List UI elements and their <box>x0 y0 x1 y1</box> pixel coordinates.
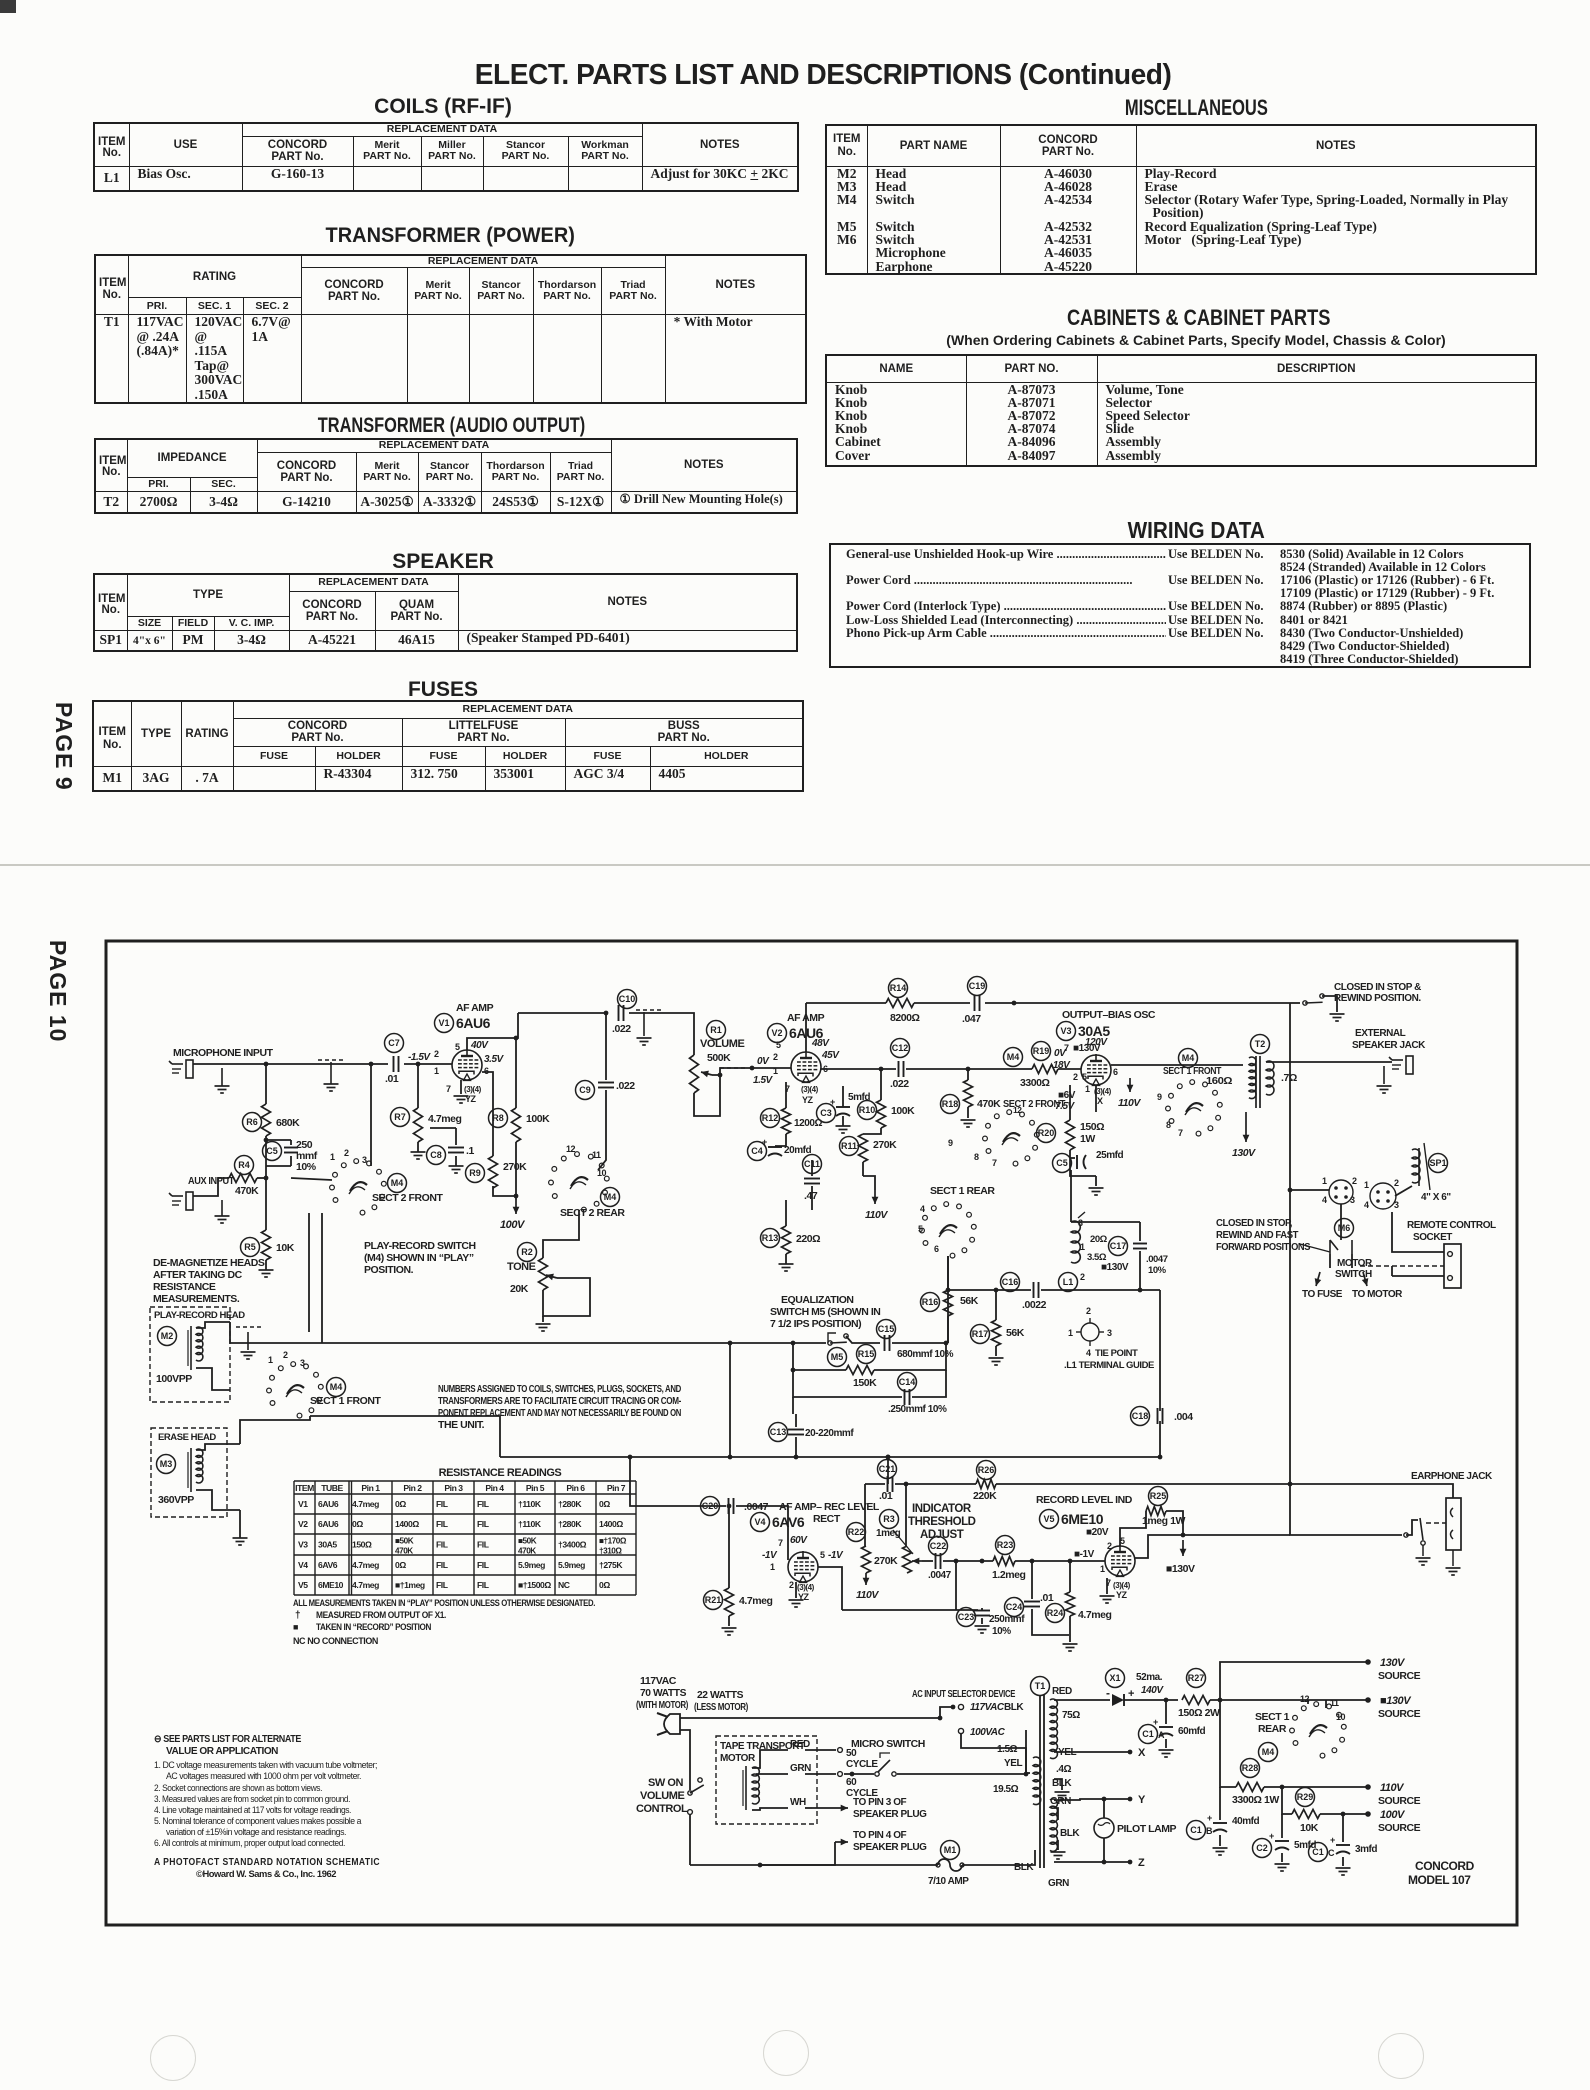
svg-text:VALUE OR APPLICATION: VALUE OR APPLICATION <box>166 1746 278 1757</box>
svg-text:AC voltages measured with 1000: AC voltages measured with 1000 ohm per v… <box>166 1771 361 1781</box>
svg-text:3. Measured values are from: 3. Measured values are from socket pin t… <box>154 1794 350 1804</box>
svg-text:CYCLE: CYCLE <box>846 1759 878 1770</box>
svg-text:M3: M3 <box>160 1459 173 1469</box>
pilot lamp <box>1094 1818 1114 1838</box>
svg-text:SOURCE: SOURCE <box>1378 1708 1421 1720</box>
svg-text:REMOTE CONTROL: REMOTE CONTROL <box>1407 1220 1496 1231</box>
capacitor C24 .01 <box>1005 1598 1024 1617</box>
svg-text:RESISTANCE: RESISTANCE <box>153 1281 216 1293</box>
svg-text:REWIND POSITION.: REWIND POSITION. <box>1334 993 1421 1004</box>
svg-text:20-220mmf: 20-220mmf <box>805 1428 854 1439</box>
capacitor C1B 40mfd <box>1219 1787 1221 1820</box>
svg-text:.0047: .0047 <box>928 1570 952 1581</box>
svg-text:6AV6: 6AV6 <box>772 1514 805 1530</box>
svg-text:FIL: FIL <box>436 1580 448 1590</box>
svg-text:20mfd: 20mfd <box>784 1145 812 1156</box>
wire V2 grid <box>752 1067 791 1069</box>
svg-text:R26: R26 <box>978 1465 995 1475</box>
svg-text:Pin 5: Pin 5 <box>526 1483 545 1493</box>
110V circuit <box>1220 1700 1236 1787</box>
svg-text:9: 9 <box>948 1138 953 1148</box>
svg-text:MEASUREMENTS.: MEASUREMENTS. <box>153 1293 240 1305</box>
svg-text:SPEAKER PLUG: SPEAKER PLUG <box>853 1842 927 1853</box>
rotary switch M4 SECT 2 FRONT b <box>986 1149 991 1154</box>
vertical feed wire right lower <box>1289 1190 1291 1484</box>
svg-text:FIL: FIL <box>436 1560 448 1570</box>
svg-text:.0047: .0047 <box>744 1501 769 1513</box>
svg-text:V1: V1 <box>438 1018 449 1028</box>
svg-text:4.7meg: 4.7meg <box>352 1499 379 1509</box>
svg-text:PLAY-RECORD SWITCH: PLAY-RECORD SWITCH <box>364 1240 476 1252</box>
svg-text:VOLUME: VOLUME <box>700 1038 744 1050</box>
svg-text:8200Ω: 8200Ω <box>890 1012 920 1024</box>
svg-text:3: 3 <box>1107 1328 1112 1338</box>
svg-text:CLOSED IN STOP,: CLOSED IN STOP, <box>1216 1218 1293 1229</box>
svg-text:FORWARD POSITIONS: FORWARD POSITIONS <box>1216 1242 1311 1253</box>
svg-text:C2: C2 <box>1256 1843 1268 1853</box>
svg-text:†110K: †110K <box>518 1519 542 1529</box>
svg-text:10: 10 <box>1336 1712 1346 1722</box>
resistor R15 150K <box>857 1345 876 1364</box>
svg-text:130V: 130V <box>1380 1657 1406 1669</box>
svg-text:■: ■ <box>293 1622 298 1632</box>
resistor R5 10K <box>241 1238 260 1257</box>
svg-text:ALL MEASUREMENTS TAKEN IN “PLA: ALL MEASUREMENTS TAKEN IN “PLAY” POSITIO… <box>293 1598 595 1609</box>
svg-text:C14: C14 <box>899 1377 916 1387</box>
capacitor C16 .0022 <box>1001 1273 1020 1292</box>
ground aux <box>221 1200 223 1216</box>
svg-text:11: 11 <box>1330 1698 1339 1708</box>
130V source terminals <box>1220 1662 1368 1700</box>
resistor R14 8200 <box>889 979 908 998</box>
svg-text:1400Ω: 1400Ω <box>599 1519 623 1529</box>
earphone switch <box>1420 1518 1423 1540</box>
svg-text:4: 4 <box>1322 1195 1327 1205</box>
svg-text:110V: 110V <box>856 1589 879 1601</box>
capacitor C11 .47 <box>803 1155 822 1174</box>
resistor R27 150 2W <box>1187 1669 1206 1688</box>
svg-text:C: C <box>1328 1848 1335 1858</box>
wire mid bus <box>948 1289 1031 1291</box>
svg-text:TIE POINT: TIE POINT <box>1095 1348 1138 1359</box>
svg-text:.47: .47 <box>804 1190 818 1202</box>
wire switch to head 1 <box>308 1213 310 1332</box>
svg-text:150Ω 2W: 150Ω 2W <box>1178 1707 1220 1719</box>
wire rotary to C7 node <box>370 1064 372 1166</box>
motor switch M6 <box>1340 1204 1342 1240</box>
svg-text:TONE: TONE <box>507 1261 536 1273</box>
svg-text:+: + <box>1269 1831 1274 1841</box>
svg-text:4.7meg: 4.7meg <box>1078 1609 1112 1621</box>
svg-text:.004: .004 <box>1174 1411 1193 1423</box>
svg-text:5.9meg: 5.9meg <box>558 1560 585 1570</box>
svg-text:B: B <box>1206 1826 1213 1836</box>
svg-text:2: 2 <box>1352 1176 1357 1186</box>
svg-text:C15: C15 <box>878 1324 895 1334</box>
resistor R20 150 1W <box>1037 1124 1056 1143</box>
svg-text:.047: .047 <box>962 1013 981 1025</box>
long bus y1457 <box>500 1456 1160 1458</box>
wh wire to speaker plug <box>805 1807 812 1809</box>
capacitor C10 .022 <box>618 990 637 1009</box>
svg-text:2: 2 <box>1080 1272 1085 1282</box>
svg-text:4: 4 <box>1086 1348 1091 1358</box>
svg-text:■50K: ■50K <box>518 1537 537 1546</box>
svg-text:270K: 270K <box>503 1161 527 1173</box>
svg-text:2: 2 <box>434 1049 439 1059</box>
svg-text:5mfd: 5mfd <box>848 1092 870 1103</box>
svg-text:20Ω: 20Ω <box>1090 1234 1108 1245</box>
bottom rail <box>690 1864 938 1866</box>
svg-text:R2: R2 <box>521 1247 533 1257</box>
svg-text:FIL: FIL <box>477 1499 489 1509</box>
svg-text:SWITCH M5 (SHOWN IN: SWITCH M5 (SHOWN IN <box>770 1306 880 1318</box>
svg-text:10%: 10% <box>296 1161 317 1173</box>
svg-text:52ma.: 52ma. <box>1136 1672 1163 1683</box>
svg-text:R12: R12 <box>762 1113 779 1123</box>
svg-text:V3: V3 <box>1060 1026 1071 1036</box>
svg-text:C17: C17 <box>1110 1241 1127 1251</box>
resistor R12 1200 <box>761 1109 780 1128</box>
capacitor C12 .022 <box>891 1039 910 1058</box>
svg-text:variation of ±15%in voltage an: variation of ±15%in voltage and resistan… <box>166 1827 346 1837</box>
svg-text:1: 1 <box>330 1152 335 1162</box>
capacitor C17 .0047 <box>1109 1237 1128 1256</box>
svg-text:R11: R11 <box>841 1141 857 1151</box>
svg-text:2: 2 <box>789 1580 794 1590</box>
head M3 coil <box>196 1449 203 1483</box>
svg-text:GRN: GRN <box>1050 1796 1071 1807</box>
svg-text:117VAC: 117VAC <box>970 1702 1005 1713</box>
motor winding <box>752 1767 759 1804</box>
arrow 110V V3 <box>1129 1078 1131 1092</box>
wire bus v4 to C21 <box>887 1457 889 1484</box>
svg-text:YZ: YZ <box>802 1095 814 1105</box>
svg-text:C24: C24 <box>1006 1602 1023 1612</box>
svg-text:470K: 470K <box>395 1547 413 1556</box>
arrow 130V below T2 <box>1245 1112 1247 1142</box>
resistor R29 10K <box>1296 1788 1315 1807</box>
svg-text:V2: V2 <box>771 1028 782 1038</box>
arrow 100V <box>515 1200 517 1214</box>
svg-text:THRESHOLD: THRESHOLD <box>908 1516 976 1528</box>
wire V1 plate to bus <box>467 1013 518 1050</box>
svg-text:MICROPHONE INPUT: MICROPHONE INPUT <box>173 1047 274 1059</box>
svg-text:-18V: -18V <box>1050 1060 1071 1071</box>
svg-text:BLK: BLK <box>1014 1862 1034 1873</box>
svg-text:TAKEN IN “RECORD” POSITION: TAKEN IN “RECORD” POSITION <box>316 1622 431 1633</box>
svg-text:T2: T2 <box>1255 1039 1266 1049</box>
svg-text:⊖ SEE PARTS LIST FOR ALTERNATE: ⊖ SEE PARTS LIST FOR ALTERNATE <box>154 1734 302 1745</box>
svg-text:470K: 470K <box>235 1185 259 1197</box>
svg-text:1: 1 <box>434 1066 439 1076</box>
wire V3 screen down <box>1095 1085 1097 1112</box>
resistor R16 56K <box>921 1293 940 1312</box>
svg-text:19.5Ω: 19.5Ω <box>993 1784 1019 1795</box>
svg-text:11: 11 <box>592 1150 601 1160</box>
svg-text:R10: R10 <box>859 1105 876 1115</box>
svg-text:TRANSFORMERS ARE TO FACILITATE: TRANSFORMERS ARE TO FACILITATE CIRCUIT T… <box>438 1395 682 1407</box>
svg-text:MICRO SWITCH: MICRO SWITCH <box>851 1738 925 1750</box>
svg-text:REWIND AND FAST: REWIND AND FAST <box>1216 1230 1298 1241</box>
svg-text:100K: 100K <box>526 1113 550 1125</box>
svg-text:FIL: FIL <box>436 1519 448 1529</box>
svg-text:INDICATOR: INDICATOR <box>912 1503 972 1515</box>
svg-text:500K: 500K <box>707 1052 731 1064</box>
svg-text:SPEAKER JACK: SPEAKER JACK <box>1352 1040 1426 1051</box>
capacitor C20 .0047 <box>701 1497 720 1516</box>
grounds earphone <box>1422 1545 1424 1556</box>
shield over mic wire <box>318 1059 346 1061</box>
wire erase head to bus <box>240 1416 310 1444</box>
svg-text:(LESS MOTOR): (LESS MOTOR) <box>694 1701 748 1713</box>
capacitor C3 5mfd <box>817 1104 836 1123</box>
svg-text:M6: M6 <box>1338 1223 1351 1233</box>
svg-text:X: X <box>1138 1747 1146 1759</box>
svg-text:5. Nominal tolerance of comp: 5. Nominal tolerance of component values… <box>154 1816 361 1826</box>
rotary switch M4 SECT 1 FRONT <box>270 1401 275 1406</box>
svg-text:M4: M4 <box>604 1192 617 1202</box>
svg-text:T1: T1 <box>1035 1681 1046 1691</box>
svg-text:150K: 150K <box>853 1377 877 1389</box>
svg-text:1: 1 <box>770 1562 775 1572</box>
transformer T2 <box>1251 1035 1270 1054</box>
svg-text:ITEM: ITEM <box>295 1483 314 1493</box>
svg-text:Pin 4: Pin 4 <box>485 1483 504 1493</box>
svg-text:SPEAKER PLUG: SPEAKER PLUG <box>853 1809 927 1820</box>
svg-text:C18: C18 <box>1132 1411 1149 1421</box>
wire sect1rear risers <box>947 1256 949 1343</box>
wire T2 secondary to speaker jack <box>1266 1061 1392 1063</box>
svg-text:-1V: -1V <box>828 1550 844 1561</box>
svg-text:M4: M4 <box>1182 1053 1195 1063</box>
svg-text:FIL: FIL <box>436 1499 448 1509</box>
svg-text:R8: R8 <box>492 1113 504 1123</box>
svg-text:M1: M1 <box>944 1845 957 1855</box>
svg-text:Pin 1: Pin 1 <box>361 1483 380 1493</box>
svg-text:.022: .022 <box>612 1023 631 1035</box>
svg-text:†275K: †275K <box>599 1560 623 1570</box>
svg-text:C1: C1 <box>1142 1729 1154 1739</box>
svg-text:140V: 140V <box>1141 1685 1164 1696</box>
wires to plugs <box>1290 1189 1329 1191</box>
fuse M1 <box>941 1841 960 1860</box>
svg-text:C13: C13 <box>770 1427 787 1437</box>
svg-text:RESISTANCE READINGS: RESISTANCE READINGS <box>439 1467 562 1479</box>
svg-text:SECT 1 REAR: SECT 1 REAR <box>930 1185 995 1197</box>
svg-text:M4: M4 <box>1007 1052 1020 1062</box>
svg-text:M4: M4 <box>330 1382 343 1392</box>
svg-text:4" X 6": 4" X 6" <box>1421 1192 1451 1203</box>
svg-text:R23: R23 <box>997 1540 1014 1550</box>
arrow 110V V2 <box>874 1190 876 1204</box>
capacitor C13 20-220mmf <box>769 1423 788 1442</box>
svg-text:0V: 0V <box>757 1056 770 1067</box>
svg-text:BLK: BLK <box>1060 1828 1080 1839</box>
svg-text:MOTOR: MOTOR <box>1337 1258 1373 1269</box>
svg-text:CONTROL: CONTROL <box>636 1803 688 1815</box>
ac selector terminals <box>940 1707 953 1718</box>
resistor R22 270K <box>864 1484 866 1546</box>
capacitor C14 .250mmf <box>898 1373 917 1392</box>
svg-text:5: 5 <box>455 1042 460 1052</box>
svg-text:(3)(4): (3)(4) <box>801 1085 819 1094</box>
svg-text:FIL: FIL <box>477 1560 489 1570</box>
svg-text:.250mmf 10%: .250mmf 10% <box>888 1404 947 1415</box>
resistor R23 1.2meg <box>996 1536 1015 1555</box>
svg-text:AC INPUT SELECTOR DEVICE: AC INPUT SELECTOR DEVICE <box>912 1688 1015 1700</box>
svg-text:RED: RED <box>1052 1686 1072 1697</box>
svg-text:POSITION.: POSITION. <box>364 1264 414 1276</box>
svg-text:R7: R7 <box>394 1112 406 1122</box>
svg-text:OUTPUT–BIAS OSC: OUTPUT–BIAS OSC <box>1062 1009 1156 1021</box>
svg-text:R5: R5 <box>244 1242 256 1252</box>
svg-text:6: 6 <box>934 1244 939 1254</box>
tube V4 6AV6 <box>788 1552 818 1582</box>
svg-text:(WITH MOTOR): (WITH MOTOR) <box>636 1699 688 1711</box>
svg-text:NC: NC <box>558 1580 570 1590</box>
svg-text:SOCKET: SOCKET <box>1413 1232 1452 1243</box>
svg-text:7: 7 <box>992 1158 997 1168</box>
rotary switch M4 SECT 2 FRONT <box>333 1198 338 1203</box>
svg-text:2: 2 <box>1086 1306 1091 1316</box>
svg-text:3: 3 <box>1350 1195 1355 1205</box>
svg-text:■6V: ■6V <box>1058 1090 1076 1101</box>
svg-text:1: 1 <box>1080 1242 1085 1252</box>
svg-text:75Ω: 75Ω <box>1062 1710 1080 1721</box>
svg-text:270K: 270K <box>874 1555 898 1567</box>
svg-text:1: 1 <box>1322 1176 1327 1186</box>
svg-text:Pin 6: Pin 6 <box>566 1483 585 1493</box>
svg-text:130V: 130V <box>1232 1147 1256 1159</box>
svg-text:.L1 TERMINAL GUIDE: .L1 TERMINAL GUIDE <box>1064 1360 1154 1371</box>
long bus wire to C10 <box>518 1012 608 1014</box>
stop-rewind switch top right <box>1290 1002 1300 1004</box>
svg-text:V4: V4 <box>298 1560 308 1570</box>
svg-text:.01: .01 <box>385 1073 399 1085</box>
svg-text:(3)(4): (3)(4) <box>464 1085 482 1094</box>
svg-text:TO FUSE: TO FUSE <box>1302 1289 1343 1300</box>
svg-text:SWITCH: SWITCH <box>1335 1269 1372 1280</box>
svg-text:1meg 1W: 1meg 1W <box>1142 1515 1185 1527</box>
svg-text:.0022: .0022 <box>1022 1299 1047 1311</box>
svg-text:12: 12 <box>566 1144 576 1154</box>
svg-text:2: 2 <box>1394 1178 1399 1188</box>
wire head M2 to switch <box>230 1322 268 1343</box>
svg-text:R4: R4 <box>238 1160 250 1170</box>
svg-text:8: 8 <box>1166 1120 1171 1130</box>
svg-text:YEL: YEL <box>1004 1758 1022 1769</box>
shield head wire <box>247 1332 249 1350</box>
svg-text:4. Line voltage maintained a: 4. Line voltage maintained at 117 volts … <box>154 1805 351 1815</box>
svg-text:FIL: FIL <box>477 1540 489 1550</box>
svg-text:6AU6: 6AU6 <box>318 1519 339 1529</box>
svg-text:1200Ω: 1200Ω <box>794 1118 822 1129</box>
ground speaker jack <box>1383 1066 1385 1084</box>
svg-text:■130V: ■130V <box>1101 1262 1129 1273</box>
svg-text:C12: C12 <box>892 1043 909 1053</box>
ground V4 <box>795 1582 797 1598</box>
svg-text:AUX INPUT: AUX INPUT <box>188 1175 235 1187</box>
svg-text:RED: RED <box>790 1739 810 1750</box>
ground shield <box>330 1062 332 1084</box>
svg-text:.0047: .0047 <box>1146 1254 1168 1265</box>
head M2 coil <box>196 1327 203 1361</box>
tie point guide circle <box>1081 1323 1099 1341</box>
svg-text:VOLUME: VOLUME <box>640 1790 684 1802</box>
ac plug <box>664 1714 680 1734</box>
svg-text:Pin 3: Pin 3 <box>444 1483 463 1493</box>
svg-text:R21: R21 <box>705 1595 722 1605</box>
svg-text:7: 7 <box>778 1538 783 1548</box>
svg-text:1. DC voltage measurements t: 1. DC voltage measurements taken with va… <box>154 1760 377 1770</box>
svg-text:SOURCE: SOURCE <box>1378 1822 1421 1834</box>
svg-text:C21: C21 <box>879 1464 896 1474</box>
resistor R21 4.7meg <box>704 1591 723 1610</box>
svg-text:6: 6 <box>484 1066 489 1076</box>
svg-text:3.5V: 3.5V <box>484 1054 505 1065</box>
svg-text:V3: V3 <box>298 1540 308 1550</box>
tape transport motor box <box>716 1736 817 1824</box>
svg-text:6ME10: 6ME10 <box>318 1580 344 1590</box>
svg-text:1W: 1W <box>1080 1133 1095 1145</box>
svg-text:4.7meg: 4.7meg <box>352 1580 379 1590</box>
schematic border frame <box>106 941 1517 1925</box>
svg-text:100V: 100V <box>1380 1809 1406 1821</box>
svg-text:3mfd: 3mfd <box>1355 1844 1377 1855</box>
svg-text:6ME10: 6ME10 <box>1061 1511 1104 1527</box>
svg-text:SECT 2 REAR: SECT 2 REAR <box>560 1207 625 1219</box>
svg-text:C5: C5 <box>266 1146 278 1156</box>
wire V2 plate riser <box>805 1003 807 1052</box>
svg-text:3: 3 <box>1078 1218 1083 1228</box>
to pin4 wire <box>760 1842 835 1865</box>
arrow 110V R22 <box>865 1573 867 1585</box>
resistor R28 3300 1W <box>1241 1759 1260 1778</box>
capacitor C1C 3mfd <box>1342 1814 1344 1842</box>
svg-text:1: 1 <box>1100 1564 1105 1574</box>
svg-text:RECT: RECT <box>813 1513 841 1525</box>
svg-text:FIL: FIL <box>477 1519 489 1529</box>
wire V4 grid <box>787 1548 789 1560</box>
svg-text:R17: R17 <box>972 1329 989 1339</box>
play-record head M2 box <box>150 1307 230 1402</box>
svg-text:25mfd: 25mfd <box>1096 1150 1124 1161</box>
svg-text:■130V: ■130V <box>1380 1695 1412 1707</box>
svg-text:.4Ω: .4Ω <box>1056 1764 1071 1775</box>
svg-text:SECT 1 FRONT: SECT 1 FRONT <box>310 1395 381 1407</box>
capacitor C21 .01 <box>878 1460 897 1479</box>
rotary switch M4 SECT 2 REAR <box>552 1194 557 1199</box>
svg-text:R27: R27 <box>1188 1673 1205 1683</box>
plug wires <box>680 1717 940 1719</box>
svg-text:7/10 AMP: 7/10 AMP <box>928 1876 969 1887</box>
svg-text:†280K: †280K <box>558 1499 582 1509</box>
svg-text:TO PIN 3 OF: TO PIN 3 OF <box>853 1797 907 1808</box>
svg-text:R6: R6 <box>246 1117 258 1127</box>
svg-text:60mfd: 60mfd <box>1178 1726 1206 1737</box>
svg-text:Pin 2: Pin 2 <box>403 1483 422 1493</box>
svg-text:PILOT LAMP: PILOT LAMP <box>1117 1823 1177 1835</box>
svg-text:4: 4 <box>1364 1200 1369 1210</box>
svg-text:+: + <box>1153 1717 1158 1727</box>
svg-text:EARPHONE JACK: EARPHONE JACK <box>1411 1471 1493 1482</box>
svg-text:EQUALIZATION: EQUALIZATION <box>781 1294 854 1306</box>
svg-text:TO PIN 4 OF: TO PIN 4 OF <box>853 1830 907 1841</box>
svg-text:6: 6 <box>1113 1067 1118 1077</box>
svg-text:3: 3 <box>1394 1200 1399 1210</box>
svg-text:1400Ω: 1400Ω <box>395 1519 419 1529</box>
